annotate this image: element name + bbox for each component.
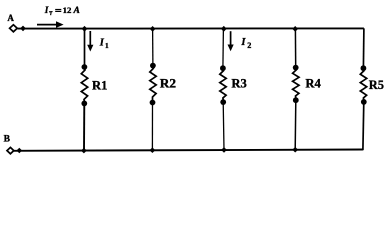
svg-text:12: 12 [63, 5, 72, 15]
svg-text:R5: R5 [369, 78, 384, 92]
svg-text:R4: R4 [305, 76, 321, 90]
svg-text:2: 2 [247, 41, 251, 50]
svg-text:B: B [4, 135, 11, 145]
svg-text:R1: R1 [92, 79, 107, 93]
label R1 [92, 79, 107, 93]
wire top bus [18, 27, 364, 29]
label I_2 [240, 37, 251, 50]
svg-text:I: I [240, 37, 246, 48]
current arrow I_1 [87, 31, 93, 52]
junction bottom of R2 branch [150, 147, 156, 153]
label R3 [231, 76, 246, 90]
junction dot at terminal A [20, 26, 26, 32]
terminal B (open diamond) [7, 147, 14, 153]
junction top of R1 branch [82, 26, 88, 32]
node B [4, 135, 11, 145]
svg-text:I: I [99, 38, 105, 49]
current arrow I_2 [228, 31, 234, 51]
label R2 [160, 77, 176, 91]
svg-text:I: I [44, 6, 49, 16]
junction bottom of R4 branch [292, 147, 298, 153]
label R5 [369, 78, 384, 92]
svg-text:A: A [7, 13, 14, 23]
current arrow I_T [37, 21, 64, 28]
resistor R5 (right-edge branch) [360, 28, 366, 150]
node A [7, 13, 14, 23]
svg-text:R3: R3 [231, 76, 246, 90]
resistor R2 [150, 29, 157, 150]
label R4 [305, 76, 321, 90]
svg-text:A: A [73, 5, 80, 16]
label I_1 [99, 38, 109, 50]
wire bottom bus [14, 150, 363, 151]
junction top of R4 branch [292, 26, 298, 32]
terminal A (open diamond) [10, 25, 18, 32]
resistor R1 [81, 29, 87, 151]
junction top of R2 branch [150, 26, 156, 32]
svg-text:1: 1 [105, 41, 109, 50]
label I_T = 12 A [44, 5, 80, 16]
svg-text:R2: R2 [160, 77, 176, 91]
junction dot at terminal B [17, 148, 23, 153]
resistor R3 [220, 29, 226, 150]
resistor R4 [293, 29, 299, 150]
junction top of R3 branch [221, 26, 227, 32]
junction bottom of R3 branch [221, 147, 227, 153]
junction bottom of R1 branch [81, 148, 87, 154]
